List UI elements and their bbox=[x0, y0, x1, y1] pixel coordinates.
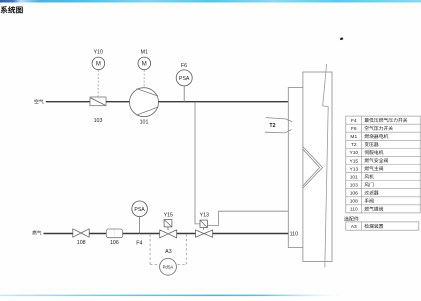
manual valve 108 (bowtie) bbox=[73, 229, 89, 237]
legend row 101 bbox=[350, 174, 374, 180]
burner body outer rectangle bbox=[303, 72, 332, 262]
fan 101 (blower circle) bbox=[130, 88, 159, 117]
burner motor M1 (M circle) bbox=[138, 57, 151, 70]
svg-text:PdSA: PdSA bbox=[163, 265, 174, 270]
svg-text:110: 110 bbox=[290, 231, 298, 237]
svg-text:T2: T2 bbox=[351, 142, 357, 148]
legend row 110 bbox=[350, 207, 383, 213]
gas safety valve Y15 (bowtie) bbox=[160, 230, 177, 238]
wire gas line segment 5 to body bbox=[213, 233, 289, 235]
svg-text:F4: F4 bbox=[351, 118, 357, 124]
wire air line between damper and fan bbox=[106, 101, 130, 103]
legend row 106 bbox=[350, 190, 379, 196]
svg-text:Y10: Y10 bbox=[93, 49, 102, 55]
wire air supply line left segment bbox=[46, 101, 90, 103]
wire gas line segment 2 bbox=[89, 233, 106, 235]
gas filter 106 bbox=[106, 229, 122, 238]
leak detector PdSA circle bbox=[160, 258, 177, 275]
electrode / break line in body bbox=[323, 64, 329, 267]
wire control line from air line down to Y13 actuator bbox=[195, 102, 200, 224]
svg-text:M: M bbox=[96, 62, 101, 68]
label 空气 (air inlet) bbox=[34, 99, 43, 104]
svg-text:101: 101 bbox=[140, 119, 149, 125]
wire gas line segment 4 bbox=[177, 233, 196, 235]
svg-text:106: 106 bbox=[350, 191, 358, 197]
legend table frame bbox=[346, 116, 420, 213]
air pressure switch F6 stem bbox=[183, 86, 185, 102]
leak detection A3 dashed enclosure bbox=[150, 234, 186, 264]
svg-text:108: 108 bbox=[350, 199, 358, 205]
svg-text:110: 110 bbox=[350, 207, 358, 213]
wire pilot pipe from Y13 to burner body bbox=[207, 211, 288, 225]
wire air line from fan to burner body bbox=[159, 101, 289, 103]
gas safety valve Y15 actuator box bbox=[164, 220, 172, 231]
wire gas line segment 1 bbox=[44, 233, 73, 235]
svg-text:Y13: Y13 bbox=[200, 213, 209, 219]
svg-text:101: 101 bbox=[350, 174, 358, 180]
svg-text:F6: F6 bbox=[351, 126, 357, 132]
legend row M1 bbox=[350, 134, 388, 140]
ink speck bbox=[340, 37, 344, 40]
svg-text:T2: T2 bbox=[269, 123, 275, 129]
svg-text:A3: A3 bbox=[351, 224, 357, 230]
chevron (diffuser) in body bbox=[303, 147, 323, 189]
label 燃气 (gas inlet) bbox=[32, 230, 41, 234]
svg-text:Y15: Y15 bbox=[349, 158, 358, 164]
legend row F4 bbox=[351, 118, 407, 124]
svg-text:Y15: Y15 bbox=[164, 213, 173, 219]
svg-text:PSA: PSA bbox=[179, 76, 190, 82]
legend row Y15 bbox=[349, 158, 387, 164]
legend row 103 bbox=[350, 182, 374, 188]
legend row Y13 bbox=[349, 166, 383, 172]
legend row F6 bbox=[351, 126, 393, 132]
legend row T2 bbox=[351, 142, 379, 148]
svg-text:103: 103 bbox=[94, 118, 103, 124]
svg-text:Y13: Y13 bbox=[349, 166, 358, 172]
gas pressure switch F4 stem bbox=[139, 217, 141, 234]
svg-text:M1: M1 bbox=[350, 134, 357, 140]
label 选配件 (optional parts) bbox=[344, 216, 359, 221]
servo motor Y10 (M circle) bbox=[92, 57, 105, 70]
svg-text:103: 103 bbox=[350, 182, 358, 188]
air pressure switch F6 (PSA circle) bbox=[176, 70, 192, 86]
title 系统图 bbox=[0, 6, 22, 13]
ignition transformer T2 leads bbox=[265, 118, 292, 133]
legend row Y10 bbox=[349, 150, 383, 156]
optional part A3 row bbox=[346, 222, 419, 230]
svg-text:F4: F4 bbox=[136, 240, 142, 246]
svg-text:106: 106 bbox=[110, 240, 119, 246]
wire gas line segment 3 bbox=[123, 233, 160, 235]
svg-text:M1: M1 bbox=[141, 49, 148, 55]
svg-text:A3: A3 bbox=[165, 249, 172, 255]
dashed control link Y10 to damper bbox=[97, 70, 99, 97]
svg-text:Y10: Y10 bbox=[349, 150, 358, 156]
gas main valve Y13 (bowtie) bbox=[196, 230, 213, 237]
svg-text:PSA: PSA bbox=[134, 207, 145, 213]
dashed control link M1 to fan bbox=[143, 70, 145, 88]
svg-text:108: 108 bbox=[77, 240, 86, 246]
air damper 103 bbox=[90, 97, 106, 106]
gas main valve Y13 actuator box bbox=[200, 220, 207, 230]
legend row 108 bbox=[350, 199, 374, 205]
gas pressure switch F4 (PSA circle) bbox=[132, 201, 148, 217]
svg-text:F6: F6 bbox=[181, 63, 187, 69]
svg-text:M: M bbox=[142, 62, 147, 68]
burner body inner flange rectangle bbox=[288, 88, 303, 248]
